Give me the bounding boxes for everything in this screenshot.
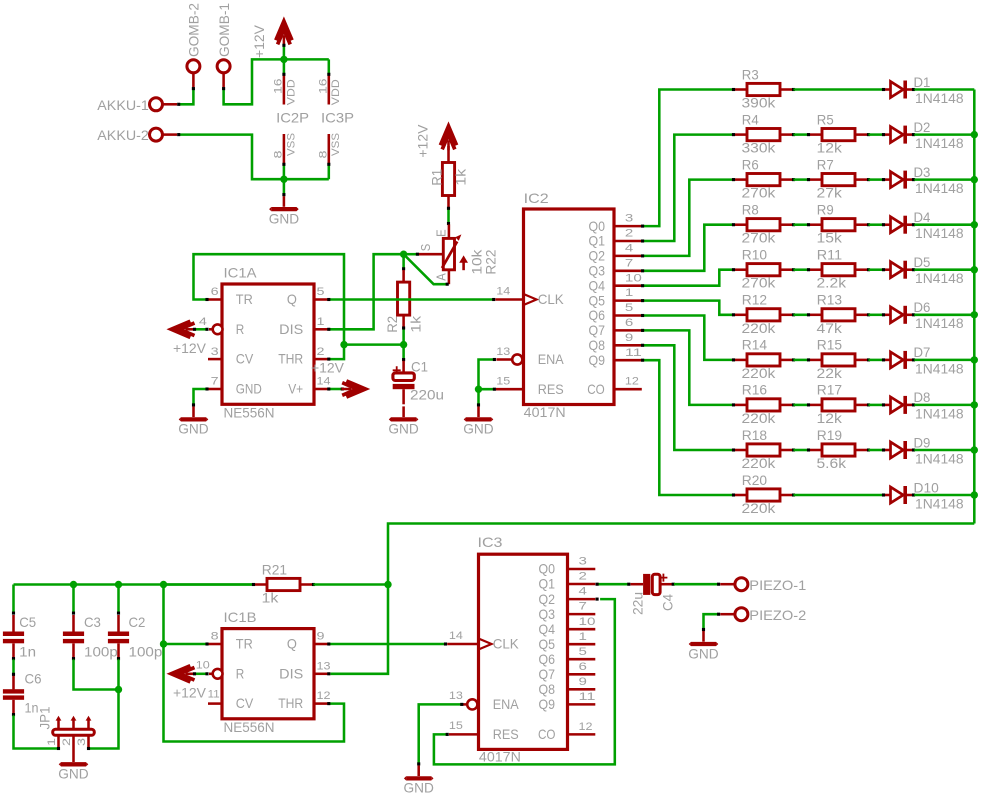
connector pad PIEZO-2: [735, 608, 748, 621]
wire D1 to bus: [914, 88, 974, 91]
wire VSS IC2P: [283, 165, 286, 179]
wire IC2 Q1 to row D2: [643, 135, 732, 241]
pin tick IC1B TR: [205, 642, 208, 645]
svg-text:V+: V+: [288, 382, 303, 397]
wire R16 to R17: [794, 404, 809, 407]
pin TR(6) of IC1A: [208, 298, 222, 301]
svg-text:+12V: +12V: [252, 24, 267, 58]
diode D9: [885, 441, 912, 459]
svg-text:VSS: VSS: [285, 133, 297, 156]
wire D4 to bus: [914, 223, 974, 226]
svg-text:TR: TR: [236, 637, 253, 652]
wire R9 to D4: [869, 223, 883, 226]
svg-text:330k: 330k: [742, 141, 776, 156]
resistor R1: [442, 151, 454, 208]
wire VDD IC3P: [328, 59, 331, 73]
pin Q4(10) of IC2: [614, 284, 642, 287]
wire IC2 Q8 to row D9: [643, 345, 732, 450]
wire C3 bottom to C2 node: [74, 659, 118, 689]
svg-text:ENA: ENA: [538, 352, 565, 367]
svg-text:E: E: [434, 229, 448, 237]
svg-text:+12V: +12V: [173, 341, 207, 356]
IC3 4017N box: [479, 554, 568, 749]
svg-text:4: 4: [199, 316, 207, 328]
pin tick R2 top: [402, 267, 405, 270]
pin GND(7) of IC1A: [208, 388, 222, 391]
svg-text:47k: 47k: [817, 321, 842, 336]
pin tick C4 right: [672, 583, 675, 586]
svg-text:GND: GND: [269, 211, 299, 226]
pin tick VSS IC2P: [282, 163, 285, 166]
pin CLK(14) stub of IC2: [495, 298, 523, 301]
svg-text:GND: GND: [404, 781, 434, 796]
svg-text:C2: C2: [129, 615, 146, 630]
wire IC2 Q5 to row D6: [643, 301, 732, 315]
pin tick IC2 Q1: [641, 239, 644, 242]
pin ticks IC1A V+: [327, 387, 344, 390]
wire R8 to R9: [794, 223, 809, 226]
wire R17 to D8: [869, 404, 883, 407]
svg-text:RES: RES: [538, 382, 564, 397]
pin R(4) of IC1A with inverter bubble: [209, 324, 223, 334]
svg-text:D1: D1: [914, 75, 931, 90]
power symbol +12V (top): [276, 21, 292, 45]
svg-text:GND: GND: [58, 767, 88, 782]
pin Q7(6) of IC3: [568, 673, 596, 676]
pin Q9(11) of IC3: [568, 703, 596, 706]
svg-text:GND: GND: [236, 382, 262, 397]
resistor R18: [735, 444, 792, 456]
svg-text:D4: D4: [914, 210, 931, 225]
svg-text:Q5: Q5: [589, 293, 606, 308]
pin THR(2) of IC1A: [314, 358, 328, 361]
svg-text:IC1B: IC1B: [224, 610, 257, 625]
svg-text:GOMB-1: GOMB-1: [217, 3, 232, 57]
pin DIS(13) of IC1B: [314, 673, 328, 676]
svg-text:12: 12: [317, 690, 331, 702]
pin ENA(13) of IC3 with bubble: [463, 699, 477, 709]
svg-text:IC2: IC2: [524, 191, 549, 206]
svg-text:A: A: [434, 273, 448, 281]
pin ticks R3: [732, 88, 795, 91]
svg-text:PIEZO-1: PIEZO-1: [749, 578, 806, 593]
pin tick C1 top: [402, 358, 405, 361]
pin ticks D7: [882, 358, 915, 361]
svg-text:NE556N: NE556N: [224, 406, 275, 421]
pin ticks R9: [807, 223, 870, 226]
pin ticks C2: [117, 612, 120, 661]
svg-text:Q6: Q6: [589, 308, 606, 323]
pin RES(15) of IC3: [449, 733, 479, 736]
pin Q2(4) of IC2: [614, 255, 642, 258]
pin tick IC2 Q3: [641, 269, 644, 272]
wire rail to R21: [164, 583, 253, 586]
svg-text:R21: R21: [262, 562, 287, 577]
pin ticks R8: [732, 223, 795, 226]
pin ticks R11: [807, 268, 870, 271]
power symbol +12V at IC1B R: [171, 666, 195, 682]
wire D8 to bus: [914, 404, 974, 407]
svg-text:8: 8: [211, 631, 219, 643]
pin ticks IC2 ENA RES: [493, 358, 496, 391]
wire R15 to D7: [869, 359, 883, 362]
capacitor C4 (polarized): [631, 574, 673, 595]
svg-text:1N4148: 1N4148: [915, 91, 964, 106]
svg-text:1: 1: [625, 287, 633, 299]
wire C1 top branch: [402, 345, 405, 359]
svg-text:22u: 22u: [630, 592, 645, 615]
pin Q4(10) of IC3: [568, 628, 596, 631]
wire S junction down to R2: [402, 254, 405, 268]
svg-text:2: 2: [317, 346, 325, 358]
resistor R8: [735, 219, 792, 231]
svg-text:4017N: 4017N: [524, 405, 566, 420]
pin Q5(1) of IC3: [568, 643, 596, 646]
svg-text:1n: 1n: [19, 644, 36, 659]
junction bus at D5: [971, 266, 978, 273]
trimmer potentiometer R22: [419, 225, 468, 285]
wire IC2 Q0 to row D1: [643, 90, 732, 227]
diode D10: [885, 486, 912, 504]
pin V+(14) of IC1A: [314, 388, 328, 391]
svg-text:+12V: +12V: [415, 124, 430, 158]
junction C3/C2 bottom: [115, 686, 122, 693]
svg-text:NE556N: NE556N: [224, 720, 275, 735]
pin ticks IC1B DIS THR: [327, 672, 330, 705]
junction top rail at IC1B TR column: [160, 581, 167, 588]
pin tick IC2 Q7: [641, 329, 644, 332]
net TR/THR wire: [194, 254, 404, 344]
junction IC2 ENA/RES/GND: [475, 386, 482, 393]
svg-text:IC3: IC3: [478, 535, 503, 550]
svg-text:6: 6: [579, 661, 587, 673]
svg-text:CO: CO: [587, 382, 605, 397]
resistor R15: [810, 354, 867, 366]
svg-text:220u: 220u: [410, 388, 444, 403]
junction GND rail at IC2P: [280, 176, 287, 183]
pin of PIEZO-1: [720, 583, 734, 586]
svg-text:14: 14: [449, 630, 463, 642]
ground symbol under IC2P: [269, 196, 299, 211]
resistor R21: [255, 578, 312, 590]
svg-text:2: 2: [625, 228, 633, 240]
pin tick IC1A DIS: [327, 328, 330, 331]
diode D6: [885, 306, 912, 324]
wire D5 to bus: [914, 268, 974, 271]
svg-text:Q3: Q3: [589, 264, 606, 279]
svg-text:220k: 220k: [742, 321, 776, 336]
pin ticks R13: [807, 313, 870, 316]
pin ticks R19: [807, 448, 870, 451]
pin of GOMB-2: [192, 72, 195, 87]
svg-text:3: 3: [579, 556, 587, 568]
pin ticks R21: [252, 583, 315, 586]
pin CV(11) of IC1B (n.c.): [208, 702, 222, 705]
wire IC2 Q6 to row D7: [643, 316, 732, 360]
svg-text:13: 13: [317, 660, 331, 672]
svg-text:+12V: +12V: [173, 686, 207, 701]
junction bus at D4: [971, 221, 978, 228]
wire vertical node down to IC1B DIS: [330, 585, 388, 674]
svg-text:C4: C4: [660, 594, 675, 611]
net IC1B Q to IC3 CLK: [330, 643, 445, 646]
diode D5: [885, 261, 912, 279]
wire D10 to bus: [914, 494, 974, 497]
svg-text:R6: R6: [742, 157, 759, 172]
svg-text:15k: 15k: [817, 231, 842, 246]
svg-text:4: 4: [625, 243, 633, 255]
svg-text:Q8: Q8: [539, 682, 556, 697]
pin Q3(7) of IC3: [568, 613, 596, 616]
svg-text:GOMB-2: GOMB-2: [187, 3, 202, 57]
svg-text:10: 10: [579, 616, 596, 628]
svg-text:9: 9: [317, 631, 325, 643]
svg-text:1N4148: 1N4148: [915, 181, 964, 196]
pin tick of ground symbol under IC2P: [282, 193, 285, 196]
svg-text:5.6k: 5.6k: [817, 456, 847, 471]
svg-text:14: 14: [496, 286, 510, 298]
wire R19 to D9: [869, 449, 883, 452]
connector pad PIEZO-1: [735, 578, 748, 591]
svg-text:Q2: Q2: [539, 592, 556, 607]
junction R21/bus/DIS: [384, 581, 391, 588]
pin of GOMB-1: [222, 72, 225, 87]
svg-text:270k: 270k: [742, 186, 776, 201]
pin ticks R7: [807, 178, 870, 181]
pin ticks D4: [882, 223, 915, 226]
svg-text:3: 3: [211, 346, 219, 358]
resistor R9: [810, 219, 867, 231]
svg-text:1N4148: 1N4148: [915, 451, 964, 466]
pin ticks C5: [12, 612, 15, 661]
pin tick IC2 Q9: [641, 359, 644, 362]
svg-text:C3: C3: [84, 615, 101, 630]
svg-text:Q8: Q8: [589, 338, 606, 353]
junction bus at D8: [971, 401, 978, 408]
junction THR node left: [340, 341, 347, 348]
wire C3 top stub: [72, 585, 75, 613]
wire IC3 Q1 to C4: [597, 583, 628, 586]
svg-text:220k: 220k: [742, 501, 776, 516]
capacitor C3: [63, 615, 84, 658]
pin Q3(7) of IC2: [614, 270, 642, 273]
svg-text:10: 10: [625, 272, 642, 284]
svg-text:10k: 10k: [469, 249, 484, 274]
svg-text:R1: R1: [430, 169, 445, 186]
wire C5 to C6: [12, 659, 15, 673]
ground symbol under IC2: [464, 406, 494, 421]
ground symbol under JP1: [59, 762, 89, 766]
svg-text:22k: 22k: [817, 366, 842, 381]
svg-text:R18: R18: [742, 428, 768, 443]
wire IC1A GND pin to ground: [194, 389, 207, 404]
pin tick IC3 Q2: [596, 598, 599, 601]
svg-text:1k: 1k: [454, 169, 469, 186]
wire IC2 Q3 to row D4: [643, 225, 732, 271]
svg-text:D9: D9: [914, 435, 931, 450]
svg-text:4: 4: [579, 586, 587, 598]
wire R3 to D1: [794, 88, 883, 91]
pin Q1(2) of IC3: [568, 583, 596, 586]
svg-text:3: 3: [76, 738, 88, 746]
svg-text:CO: CO: [538, 727, 556, 742]
pin ticks R6: [732, 178, 795, 181]
svg-text:CLK: CLK: [493, 637, 520, 652]
svg-text:Q5: Q5: [539, 637, 556, 652]
svg-text:CV: CV: [236, 696, 254, 711]
svg-text:7: 7: [625, 257, 633, 269]
junction IC1B TR tap: [160, 640, 167, 647]
pin tick VSS IC3P: [327, 163, 330, 166]
svg-text:Q3: Q3: [539, 607, 556, 622]
IC2 4017N box: [524, 209, 615, 405]
wire PIEZO-2 to ground: [704, 614, 718, 628]
svg-text:12k: 12k: [817, 411, 842, 426]
pin ticks on CLK net: [327, 298, 495, 301]
svg-text:R20: R20: [742, 473, 768, 488]
wire diode output bus (vertical): [973, 90, 976, 524]
svg-text:8: 8: [273, 151, 285, 159]
wire TR net wrap to THR: [164, 585, 345, 742]
resistor R20: [735, 489, 792, 501]
pin Q0(3) of IC3: [568, 568, 596, 571]
svg-text:9: 9: [625, 332, 633, 344]
pin ticks D8: [882, 403, 915, 406]
pin tick IC3 ENA: [460, 703, 463, 706]
svg-text:GND: GND: [688, 646, 718, 661]
power symbol +12V at IC1A R: [171, 321, 195, 337]
junction bus at D9: [971, 446, 978, 453]
pin ticks AKKU-1 / GOMB-2: [177, 87, 195, 106]
junction bus at D7: [971, 356, 978, 363]
pin ticks JP1 1/3: [57, 747, 90, 750]
svg-text:R19: R19: [817, 428, 843, 443]
wire R4 to R5: [794, 133, 809, 136]
op-amp/timer IC1B box: [222, 629, 314, 719]
pin CO(12) of IC3 (n.c.): [568, 733, 596, 736]
svg-text:6: 6: [211, 286, 219, 298]
pin Q7(6) of IC2: [614, 329, 642, 332]
pin joint R1/+12V: [447, 146, 450, 151]
pin Q6(5) of IC2: [614, 314, 642, 317]
pin of AKKU-1: [162, 103, 177, 106]
junction C2 top: [115, 581, 122, 588]
svg-text:7: 7: [211, 376, 219, 388]
svg-text:1N4148: 1N4148: [915, 226, 964, 241]
power pin IC2P VSS: [283, 134, 286, 164]
svg-text:1N4148: 1N4148: [915, 406, 964, 421]
pin tick PIEZO-2: [717, 613, 720, 616]
svg-text:11: 11: [625, 347, 642, 359]
svg-text:AKKU-1: AKKU-1: [97, 98, 149, 113]
wire top rail lower-left: [12, 585, 15, 613]
resistor R14: [735, 354, 792, 366]
pin CV(3) of IC1A (n.c.): [208, 358, 222, 361]
pin Q6(5) of IC3: [568, 658, 596, 661]
svg-text:16: 16: [273, 79, 285, 95]
diode D4: [885, 216, 912, 234]
pin tick IC2 Q2: [641, 254, 644, 257]
wire AKKU-1 to GOMB-2: [179, 89, 194, 105]
wire D2 to bus: [914, 133, 974, 136]
svg-text:13: 13: [496, 346, 510, 358]
junction bus at D10: [971, 491, 978, 498]
power symbol +12V at IC1A V+: [341, 381, 365, 397]
svg-text:1N4148: 1N4148: [915, 316, 964, 331]
svg-text:R10: R10: [742, 248, 768, 263]
clock triangle of IC2: [524, 294, 537, 305]
pin tick R22 S: [416, 253, 419, 256]
pin THR(12) of IC1B: [314, 702, 328, 705]
ground symbol under C1: [389, 406, 419, 421]
pin ticks D6: [882, 313, 915, 316]
wire R10 to R11: [794, 268, 809, 271]
svg-text:Q0: Q0: [589, 219, 606, 234]
svg-text:1N4148: 1N4148: [915, 136, 964, 151]
wire R7 to D3: [869, 178, 883, 181]
resistor R12: [735, 309, 792, 321]
pin ticks R1 bottom / R22 E: [447, 207, 450, 225]
svg-text:D3: D3: [914, 165, 931, 180]
svg-text:270k: 270k: [742, 276, 776, 291]
power pin IC3P VDD: [328, 75, 331, 105]
pin CO(12) of IC2 (n.c.): [614, 388, 642, 391]
pin of PIEZO-2: [720, 613, 734, 616]
pin tick IC3 RES: [446, 733, 449, 736]
pin ticks R17: [807, 403, 870, 406]
capacitor C2: [108, 615, 129, 658]
svg-text:11: 11: [208, 689, 220, 701]
resistor R10: [735, 264, 792, 276]
pin tick of ground symbol under IC1A: [192, 403, 195, 406]
diode D1: [885, 81, 912, 99]
svg-text:15: 15: [496, 376, 510, 388]
svg-text:2: 2: [579, 571, 587, 583]
wire S junction to A pin (diagonal): [404, 254, 447, 284]
svg-text:GND: GND: [388, 422, 418, 437]
wire D6 to bus: [914, 314, 974, 317]
net IC3 RES from Q2: [434, 599, 615, 764]
pin CLK(14) stub of IC3: [447, 643, 478, 646]
svg-text:R12: R12: [742, 293, 767, 308]
svg-text:6: 6: [625, 317, 633, 329]
wire S junction to wiper: [404, 253, 417, 256]
pin ticks R14: [732, 358, 795, 361]
pin ENA(13) of IC2 with bubble: [496, 354, 522, 364]
svg-text:Q4: Q4: [589, 278, 606, 293]
wire +12V arrow to IC1B R pin: [195, 673, 206, 676]
op-amp/timer IC1A box: [222, 284, 314, 404]
wire R12 to R13: [794, 314, 809, 317]
pin ticks at IC1B R: [193, 672, 209, 675]
pin ticks D9: [882, 448, 915, 451]
wire C2 bottom through node to bottom rail: [89, 659, 118, 748]
pin ticks D5: [882, 268, 915, 271]
wire IC3 ENA to ground: [419, 704, 461, 763]
pin Q2(4) of IC3: [568, 598, 596, 601]
pin TR(8) of IC1B: [208, 643, 222, 646]
pin Q0(3) of IC2: [614, 225, 642, 228]
wire D9 to bus: [914, 449, 974, 452]
junction +12V at IC2P: [280, 56, 287, 63]
pin tick IC1A GND: [205, 387, 208, 390]
svg-text:2: 2: [61, 738, 73, 746]
pin tick R22 A: [446, 283, 449, 286]
pin ticks R15: [807, 358, 870, 361]
svg-text:4017N: 4017N: [479, 750, 521, 765]
svg-text:13: 13: [449, 690, 463, 702]
wire top rail horizontal: [14, 583, 253, 586]
